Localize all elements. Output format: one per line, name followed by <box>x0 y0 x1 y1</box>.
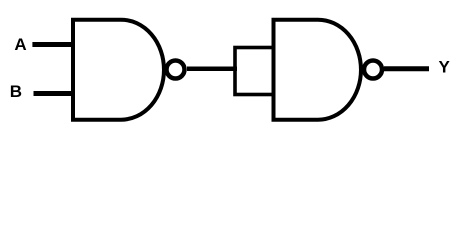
svg-text:Y: Y <box>439 57 451 76</box>
wire: U2 output to Y <box>384 66 429 71</box>
wire: U1 output to U2 input junction <box>187 66 237 71</box>
svg-text:B: B <box>10 82 22 101</box>
NAND gate U2 inversion bubble <box>364 61 382 79</box>
NAND gate U1 body <box>73 20 164 120</box>
svg-text:A: A <box>14 35 26 54</box>
NAND gate U2 body <box>274 20 361 120</box>
NAND gate U1 inversion bubble <box>167 61 185 79</box>
wire: input B to U1 <box>34 91 76 96</box>
wire: input A to U1 <box>32 42 75 47</box>
wire junction: rectangle tying both U2 inputs together <box>235 48 274 95</box>
